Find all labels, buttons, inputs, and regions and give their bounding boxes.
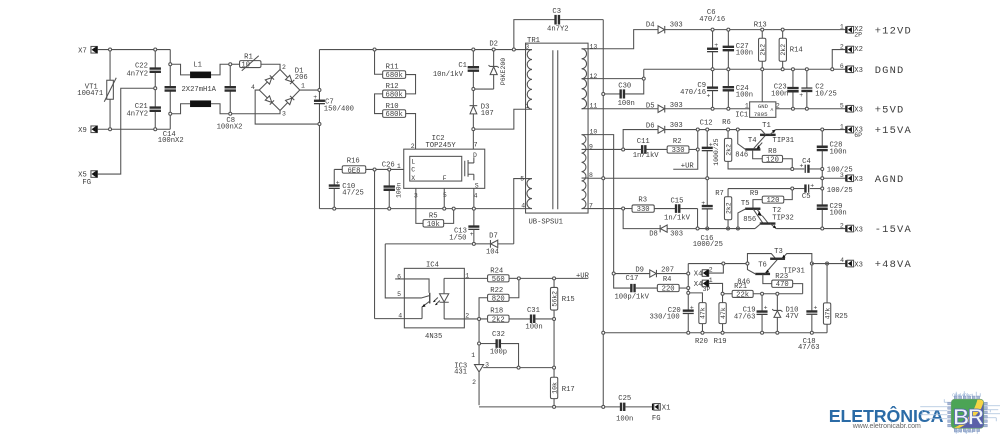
svg-text:D8: D8 [649, 231, 658, 239]
op IC2 TOP245Y [397, 135, 485, 199]
svg-text:100n: 100n [396, 182, 403, 198]
capacitor C1 [433, 51, 479, 88]
junction R21 X4 [721, 292, 724, 295]
wire IC3 cathode to R17 [520, 367, 553, 369]
bridge rectifier D1 [251, 64, 308, 117]
svg-text:+: + [701, 200, 705, 207]
svg-text:R18: R18 [490, 307, 503, 315]
capacitor C20 [649, 305, 693, 332]
junction D10 top [776, 292, 779, 295]
capacitor C29 [817, 180, 847, 227]
transistor T1 [760, 122, 794, 145]
wire L1 bottom right [211, 104, 229, 114]
wire 48V collector column [687, 264, 689, 311]
svg-text:+: + [764, 305, 768, 312]
capacitor C23 [771, 71, 799, 108]
svg-text:R23: R23 [775, 273, 788, 281]
svg-text:150/400: 150/400 [324, 105, 354, 113]
junction C24 bottom [727, 107, 730, 110]
wire C15 elbow down [697, 209, 699, 228]
svg-text:+: + [336, 179, 340, 186]
svg-text:680k: 680k [386, 72, 403, 80]
junction R7 bottom [727, 227, 730, 230]
svg-text:1/50: 1/50 [449, 235, 466, 243]
capacitor C9 [680, 71, 718, 108]
wire IC2 X pin to R5 [416, 188, 423, 223]
connector X2 pin1 [840, 24, 863, 39]
wire X9 bottom rail [97, 128, 170, 130]
svg-text:680k: 680k [386, 91, 403, 99]
junction C31 R15 [553, 317, 556, 320]
svg-text:X3: X3 [854, 106, 863, 114]
svg-text:X3: X3 [854, 176, 863, 184]
wire R15 column down [553, 320, 555, 366]
junction C19 bottom [761, 331, 764, 334]
svg-text:D4: D4 [646, 21, 655, 29]
svg-text:C25: C25 [618, 395, 631, 403]
junction C32 IC3 cathode [517, 366, 520, 369]
svg-text:2k2: 2k2 [492, 316, 505, 324]
wire IC4 pin1 to R24 [464, 277, 487, 279]
wire 48V top rail left [688, 263, 747, 265]
wire C28 to AGND [821, 170, 823, 176]
svg-text:100n: 100n [771, 90, 788, 98]
connector X3 pin2 [840, 222, 863, 234]
connector X3 pin3 [840, 172, 863, 184]
wire bias rail to IC4 pin5 [385, 244, 404, 298]
svg-text:2: 2 [282, 64, 286, 71]
capacitor C28 [817, 131, 847, 167]
junction snubber top [696, 128, 699, 131]
logo EletronicaBR [829, 405, 944, 430]
svg-text:+: + [810, 182, 814, 189]
junction C22 top [154, 48, 157, 51]
svg-text:220: 220 [662, 285, 675, 293]
wire -15 rail left [699, 228, 755, 230]
svg-text:206: 206 [295, 74, 308, 82]
wire TR1 pin10 riser [588, 135, 614, 272]
svg-text:DGND: DGND [875, 65, 905, 77]
svg-text:100p/1kV: 100p/1kV [614, 293, 649, 301]
svg-text:10n/1kV: 10n/1kV [433, 71, 464, 79]
svg-text:13: 13 [589, 44, 597, 51]
resistor R10 [375, 94, 406, 119]
junction C16 bottom [706, 227, 709, 230]
junction VT1 bottom [109, 128, 112, 131]
junction R24 R22 [517, 277, 520, 280]
svg-text:303: 303 [670, 122, 683, 130]
svg-text:F: F [443, 175, 447, 182]
resistor R4 [657, 276, 686, 294]
wire +12V rail [665, 29, 846, 31]
junction C8 top [229, 63, 232, 66]
svg-text:R3: R3 [638, 196, 647, 204]
junction S pin C13 [472, 207, 475, 210]
svg-text:FG: FG [82, 179, 91, 187]
junction D3 drain node [472, 128, 475, 131]
svg-text:R8: R8 [768, 148, 777, 156]
capacitor C24 [723, 71, 753, 108]
svg-text:1n/1kV: 1n/1kV [664, 214, 691, 222]
varistor VT1 [77, 51, 116, 128]
svg-text:TOP245Y: TOP245Y [425, 142, 456, 150]
junction C8 bottom [229, 112, 232, 115]
junction R6 R8 C4 [791, 167, 794, 170]
wire X7 top rail [97, 49, 170, 51]
svg-text:4n7Y2: 4n7Y2 [547, 25, 569, 33]
svg-text:1000/25: 1000/25 [693, 241, 723, 249]
svg-text:X3: X3 [854, 262, 863, 270]
svg-text:D2: D2 [489, 40, 498, 48]
capacitor C26 [382, 161, 403, 207]
svg-text:100/25: 100/25 [827, 187, 853, 195]
svg-text:6E8: 6E8 [347, 167, 360, 175]
svg-text:P6KE200: P6KE200 [500, 58, 507, 85]
svg-text:R12: R12 [386, 83, 399, 91]
capacitor C2 [799, 71, 837, 108]
svg-text:T1: T1 [762, 122, 771, 130]
svg-text:820: 820 [492, 295, 505, 303]
svg-text:X7: X7 [78, 47, 87, 55]
resistor R8 [753, 148, 793, 167]
svg-text:3: 3 [840, 172, 844, 179]
svg-text:330/100: 330/100 [649, 313, 679, 321]
junction T5 base [736, 227, 739, 230]
wire L1 top right [211, 64, 229, 75]
junction pin7 [622, 207, 625, 210]
junction FG vertical bottom [602, 405, 605, 408]
junction C14/L1 top [169, 63, 172, 66]
junction X4-2 riser [722, 262, 725, 265]
svg-text:2k2: 2k2 [725, 202, 732, 214]
capacitor C14 [158, 50, 184, 145]
connector X4 pin2 [694, 265, 724, 278]
svg-text:100471: 100471 [77, 90, 103, 98]
junction C12 top [706, 128, 709, 131]
svg-text:10/25: 10/25 [815, 90, 837, 98]
wire L1 bottom left [172, 104, 190, 114]
wire pin9 elbow to D6 [623, 130, 658, 148]
diode D7 [475, 232, 513, 256]
wire X5 FG to cap midpoint [97, 88, 153, 174]
svg-text:X1: X1 [662, 405, 671, 413]
resistor R2 [667, 138, 696, 155]
junction R5 [452, 207, 455, 210]
wire D5 to IC1 [665, 108, 750, 110]
junction C18 bottom [810, 331, 813, 334]
junction 48V return FG [602, 331, 605, 334]
svg-text:R22: R22 [490, 287, 503, 295]
junction C5 C29 [821, 187, 824, 190]
junction C27 top [727, 28, 730, 31]
diode D3 [470, 91, 494, 128]
svg-text:470/16: 470/16 [699, 16, 725, 24]
svg-text:+15VA: +15VA [875, 125, 912, 137]
svg-text:C1: C1 [458, 62, 467, 70]
junction VT1 top [109, 48, 112, 51]
resistor R23 [763, 273, 803, 294]
junction C15 bottom [696, 227, 699, 230]
svg-text:D5: D5 [646, 102, 655, 110]
wire R1 to bridge pin2 [261, 64, 280, 69]
wire snubber riser [697, 131, 699, 148]
capacitor C31 [525, 307, 552, 332]
svg-text:L: L [411, 158, 415, 165]
svg-text:R15: R15 [562, 296, 575, 304]
wire IC2 F pin [443, 188, 445, 207]
svg-text:431: 431 [454, 368, 467, 376]
junction T6 base [746, 262, 749, 265]
svg-text:3: 3 [485, 361, 489, 368]
svg-text:100n: 100n [736, 50, 753, 58]
junction C14/L1 bottom [169, 112, 172, 115]
svg-text:+: + [709, 142, 713, 149]
svg-text:T4: T4 [748, 137, 757, 145]
connector X5 [78, 171, 97, 187]
svg-text:C31: C31 [527, 307, 540, 315]
svg-text:47/63: 47/63 [734, 314, 756, 322]
svg-text:R14: R14 [790, 46, 803, 54]
capacitor C4 [794, 158, 853, 175]
svg-text:7805: 7805 [754, 111, 768, 118]
svg-text:T3: T3 [774, 248, 783, 256]
junction C4 C28 [821, 167, 824, 170]
svg-text:1: 1 [525, 103, 529, 110]
svg-text:X3: X3 [854, 226, 863, 234]
svg-text:D9: D9 [635, 266, 644, 274]
wire C8 to R1 [232, 63, 240, 65]
wire pin7 elbow to D8 [623, 210, 660, 229]
junction C10 [333, 207, 336, 210]
wire FG vertical [602, 20, 604, 406]
svg-text:470: 470 [776, 281, 789, 289]
svg-text:R9: R9 [750, 190, 759, 198]
capacitor C3 [514, 8, 603, 48]
svg-text:4n7Y2: 4n7Y2 [126, 71, 148, 79]
svg-text:5: 5 [443, 192, 447, 199]
junction C6 top [711, 28, 714, 31]
transistor T4 [735, 131, 765, 159]
logo chip body [948, 396, 988, 432]
svg-text:R21: R21 [734, 283, 747, 291]
svg-text:6: 6 [840, 63, 844, 70]
svg-text:X4: X4 [694, 270, 703, 278]
svg-text:R24: R24 [490, 267, 503, 275]
svg-text:GND: GND [758, 103, 769, 110]
resistor R15 [550, 280, 574, 318]
wire 48V bottom rail [603, 332, 827, 334]
wire drain node to TR1 pin1 [475, 109, 526, 129]
svg-text:5: 5 [520, 175, 524, 182]
svg-text:1: 1 [840, 123, 844, 130]
wire R22 riser to C32 [478, 320, 480, 342]
capacitor C8 [217, 66, 243, 132]
capacitor C30 [605, 80, 644, 108]
resistor R18 [488, 307, 531, 324]
connector X3 pin5 [840, 103, 863, 115]
svg-text:100n: 100n [618, 100, 635, 108]
svg-text:C3: C3 [552, 8, 561, 16]
svg-text:+: + [707, 92, 711, 99]
svg-text:www.eletronicabr.com: www.eletronicabr.com [852, 423, 921, 430]
junction R20 bottom [701, 331, 704, 334]
junction C3 elbow [512, 48, 515, 51]
svg-text:3: 3 [282, 110, 286, 117]
svg-text:207: 207 [661, 266, 674, 274]
wire R24 node to R15 [520, 277, 552, 279]
resistor R5 [423, 212, 444, 228]
connector X4 pin1 [694, 277, 723, 293]
svg-text:R2: R2 [673, 138, 682, 146]
svg-text:2X27mH1A: 2X27mH1A [181, 86, 216, 94]
svg-text:IC1: IC1 [735, 111, 748, 119]
wire X2 pin2 to DGND [832, 50, 845, 68]
svg-text:T6: T6 [758, 261, 767, 269]
junction C20 bottom [687, 331, 690, 334]
wire +15 rail right [776, 129, 846, 131]
svg-text:6P: 6P [854, 132, 862, 139]
junction R19 bottom [721, 331, 724, 334]
svg-text:+: + [470, 231, 474, 238]
resistor R25 [823, 265, 847, 333]
capacitor C25 [616, 395, 652, 424]
svg-text:C22: C22 [135, 63, 148, 71]
net stub +UR upper [673, 151, 698, 171]
svg-text:10k: 10k [427, 221, 440, 229]
resistor R12 [383, 75, 416, 100]
capacitor C19 [734, 295, 768, 331]
junction C22/C21 midpoint [154, 87, 157, 90]
svg-text:A: A [771, 107, 774, 113]
capacitor C15 [664, 197, 698, 222]
junction AGND C28 C29 [821, 177, 824, 180]
svg-text:846: 846 [735, 151, 748, 159]
svg-text:X3: X3 [854, 67, 863, 75]
junction C1 top [472, 48, 475, 51]
svg-text:2k2: 2k2 [725, 144, 732, 156]
resistor R1 [240, 53, 261, 71]
junction C26 [388, 207, 391, 210]
svg-text:+: + [313, 94, 317, 101]
svg-text:R13: R13 [754, 21, 767, 29]
svg-text:470/16: 470/16 [680, 89, 706, 97]
diode D9 [615, 266, 687, 277]
wire primary top rail [319, 50, 525, 89]
svg-text:+UR: +UR [576, 272, 590, 280]
svg-text:C17: C17 [625, 275, 638, 283]
resistor R9 [750, 190, 792, 209]
wire source rail [319, 208, 525, 210]
resistor R11 [375, 51, 406, 80]
svg-text:+: + [799, 92, 803, 99]
wire bridge pin3 to C8 [232, 110, 280, 113]
wire L1 top left [172, 64, 190, 75]
junction C13 bottom [472, 242, 475, 245]
svg-text:X: X [411, 175, 415, 182]
wire bridge pin1 to C7 [300, 89, 318, 91]
transistor T5 [738, 200, 768, 227]
capacitor C18 [798, 265, 820, 352]
svg-text:+: + [813, 304, 817, 311]
junction R14 top [781, 28, 784, 31]
svg-text:1n/1kV: 1n/1kV [633, 152, 660, 160]
junction DGND C23 [791, 68, 794, 71]
junction AGND C12 C16 [706, 177, 709, 180]
wire +15 rectified rail [665, 129, 761, 131]
svg-text:R25: R25 [835, 313, 848, 321]
connector X1 [652, 404, 670, 424]
svg-text:R11: R11 [386, 64, 399, 72]
svg-text:2: 2 [472, 379, 476, 386]
connector X3 pin1 [840, 123, 863, 139]
svg-text:10: 10 [241, 62, 250, 70]
svg-text:C32: C32 [492, 331, 505, 339]
svg-text:3: 3 [525, 44, 529, 51]
resistor R14 [779, 31, 803, 68]
resistor R21 [724, 283, 803, 299]
connector X3 pin6 [840, 63, 863, 75]
junction DGND C2 [805, 68, 808, 71]
svg-text:1: 1 [840, 24, 844, 31]
svg-text:100n: 100n [829, 149, 846, 157]
junction C28 top [821, 128, 824, 131]
svg-text:UB-SPSU1: UB-SPSU1 [528, 219, 563, 227]
svg-text:+48VA: +48VA [875, 259, 912, 271]
junction C23 bottom [791, 107, 794, 110]
svg-text:2k2: 2k2 [780, 44, 787, 56]
wire TR1 pin11 to D5 [588, 108, 658, 110]
junction R17 top [553, 366, 556, 369]
svg-text:+: + [714, 42, 718, 49]
svg-text:-15VA: -15VA [875, 224, 912, 236]
junction R13 top [761, 28, 764, 31]
transistor T3 [747, 248, 811, 276]
svg-text:1: 1 [745, 102, 749, 109]
junction DGND R14 [781, 68, 784, 71]
svg-text:56k2: 56k2 [551, 291, 558, 307]
svg-text:L1: L1 [193, 61, 202, 69]
wire C7 minus column [318, 126, 320, 209]
resistor R16 [334, 158, 404, 176]
svg-text:R1: R1 [244, 53, 253, 61]
connector X2 pin2 [840, 43, 863, 54]
svg-text:D7: D7 [489, 232, 498, 240]
diode D6 [646, 122, 683, 133]
svg-text:4: 4 [251, 84, 255, 91]
junction C29 bottom [821, 227, 824, 230]
svg-text:C26: C26 [382, 161, 395, 169]
wire D7 to TR1 pin5 [514, 179, 526, 244]
junction DGND X2 [831, 68, 834, 71]
junction C21 bottom [154, 128, 157, 131]
junction opto emitter tap [373, 168, 376, 171]
junction R6 top [727, 128, 730, 131]
resistor R19 [714, 295, 727, 346]
capacitor C10 [329, 169, 364, 207]
junction pin9 [622, 148, 625, 151]
svg-text:5: 5 [397, 291, 401, 298]
opto IC4 4N35 [395, 262, 469, 341]
transistor T2 [755, 207, 794, 229]
svg-text:C5: C5 [802, 193, 811, 201]
svg-text:R20: R20 [695, 338, 708, 346]
junction AGND FG [602, 177, 605, 180]
svg-text:107: 107 [481, 110, 494, 118]
transformer TR1 [520, 37, 597, 226]
wire IC4 pin4 out [375, 318, 405, 320]
svg-text:TIP32: TIP32 [772, 214, 794, 222]
resistor R22 [479, 280, 519, 318]
